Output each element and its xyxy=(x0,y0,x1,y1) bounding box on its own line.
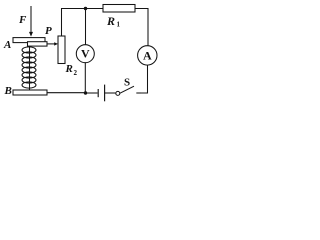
spring rod xyxy=(29,47,31,91)
svg-text:V: V xyxy=(81,47,90,61)
ammeter A1 xyxy=(138,46,157,65)
wire bottom junction to plate B xyxy=(47,92,86,94)
svg-text:A: A xyxy=(143,48,152,62)
wire voltmeter top lead xyxy=(85,9,87,45)
spring coil xyxy=(22,47,36,88)
svg-text:R: R xyxy=(106,14,115,28)
svg-text:2: 2 xyxy=(74,69,78,77)
wire R1 to ammeter xyxy=(135,9,148,46)
svg-text:1: 1 xyxy=(117,21,121,29)
voltmeter V xyxy=(76,45,94,63)
label R2 xyxy=(65,63,78,77)
svg-text:S: S xyxy=(124,77,130,89)
svg-text:R: R xyxy=(65,63,73,75)
resistor R2 xyxy=(58,36,65,64)
wire battery to bottom junction xyxy=(86,92,98,94)
node bottom junction xyxy=(84,91,87,94)
plate A (top pressure plate) xyxy=(13,38,45,43)
wire top: R2 top to R1 left xyxy=(62,9,104,37)
plate B (bottom base plate) xyxy=(13,90,47,95)
svg-text:F: F xyxy=(18,14,27,26)
slider arrow P to R2 xyxy=(47,42,58,45)
svg-text:B: B xyxy=(4,85,12,97)
label R1 xyxy=(106,14,121,29)
switch S xyxy=(116,86,141,95)
svg-text:P: P xyxy=(45,25,52,37)
wire ammeter to bottom corner xyxy=(140,65,148,93)
wire voltmeter bottom lead xyxy=(84,63,86,93)
force arrow F xyxy=(29,6,33,37)
node top junction xyxy=(84,7,87,10)
battery xyxy=(98,85,104,102)
slider bar xyxy=(28,42,48,46)
wire switch to battery xyxy=(105,92,116,94)
resistor R1 xyxy=(103,5,135,13)
svg-text:A: A xyxy=(3,39,11,51)
